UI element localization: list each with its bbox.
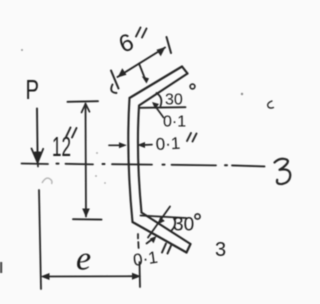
dimension 6 left arrowhead	[118, 68, 127, 77]
label 12 double prime	[66, 128, 77, 138]
bottom angle reference line	[141, 216, 187, 219]
centerline dash 2	[66, 163, 94, 166]
top flange inner edge	[139, 74, 188, 106]
dimension 6 right tick	[167, 37, 172, 53]
centerline dash 5	[232, 165, 265, 166]
bottom flange outer edge	[133, 222, 187, 253]
svg-text:30: 30	[173, 215, 194, 236]
faint erased mark	[42, 178, 52, 184]
paper speck 2	[241, 93, 243, 95]
leader for top 0.1	[152, 102, 164, 118]
dimension 12 bottom arrowhead	[82, 209, 90, 218]
paper speck 4	[95, 175, 97, 177]
svg-text:e: e	[76, 241, 91, 278]
web right edge	[138, 106, 142, 213]
dimension e left extension line	[39, 190, 41, 289]
dimension 6 right arrowhead	[157, 47, 166, 56]
centerline dot 3	[163, 164, 165, 166]
axis label z	[275, 159, 291, 184]
web thickness label 0.1in	[155, 134, 181, 154]
bottom flange inner edge	[142, 213, 191, 245]
paper speck 3	[96, 152, 98, 154]
top flange end cap	[182, 67, 188, 74]
bottom thickness dashed leader	[137, 234, 140, 248]
top flange outer edge	[130, 67, 183, 99]
dimension 12 top arrowhead	[82, 104, 90, 113]
bottom angle arc	[171, 219, 175, 232]
web thickness left arrow	[109, 142, 127, 148]
centerline dash 3	[112, 163, 152, 165]
label 6	[115, 29, 138, 59]
top corner pointer arrow	[139, 64, 149, 84]
bottom thickness label 0.1	[132, 248, 159, 270]
centerline dot 2	[103, 163, 105, 165]
svg-text:12: 12	[52, 131, 71, 162]
paper edge smudge	[0, 262, 2, 273]
dimension 12 line	[85, 104, 88, 217]
centerline dash 4	[172, 164, 217, 167]
dimension e left arrowhead	[41, 273, 50, 280]
centerline dot 1	[57, 163, 59, 165]
dimension 12 top tick	[68, 100, 99, 103]
bottom corner leader arrow	[148, 207, 170, 238]
paper speck 5	[104, 182, 106, 184]
svg-text:3: 3	[215, 239, 226, 261]
svg-text:0·1: 0·1	[155, 134, 181, 154]
bottom degree mark	[195, 214, 200, 219]
dimension 12 bottom tick	[73, 218, 102, 220]
dimension e right arrowhead	[132, 273, 141, 280]
dimension 6 line	[118, 48, 166, 78]
dimension 6 left tick	[111, 71, 119, 89]
dimension e right extension line	[139, 262, 142, 287]
top angle reference line	[140, 106, 186, 109]
bottom thickness double prime	[162, 244, 172, 254]
svg-text:0·1: 0·1	[132, 248, 159, 270]
label 6 double prime	[136, 28, 147, 38]
paper speck 1	[21, 49, 23, 51]
load arrow P	[32, 109, 44, 167]
svg-text:P: P	[26, 74, 40, 105]
web thickness right arrow	[137, 142, 152, 148]
centerline dash 1	[22, 163, 49, 166]
top angle arc	[157, 93, 162, 106]
svg-text:30: 30	[165, 92, 183, 109]
top degree mark	[190, 84, 195, 89]
dimension 6 left tick hook	[111, 85, 116, 94]
bottom flange end cap	[187, 244, 191, 253]
web thickness label double prime	[187, 133, 197, 142]
dimension e line	[44, 275, 137, 277]
centerline dot 4	[225, 164, 227, 166]
web left edge	[128, 98, 132, 222]
paper mark c	[268, 101, 274, 108]
bottom thickness leader	[147, 236, 157, 244]
svg-text:0·1: 0·1	[163, 114, 186, 131]
